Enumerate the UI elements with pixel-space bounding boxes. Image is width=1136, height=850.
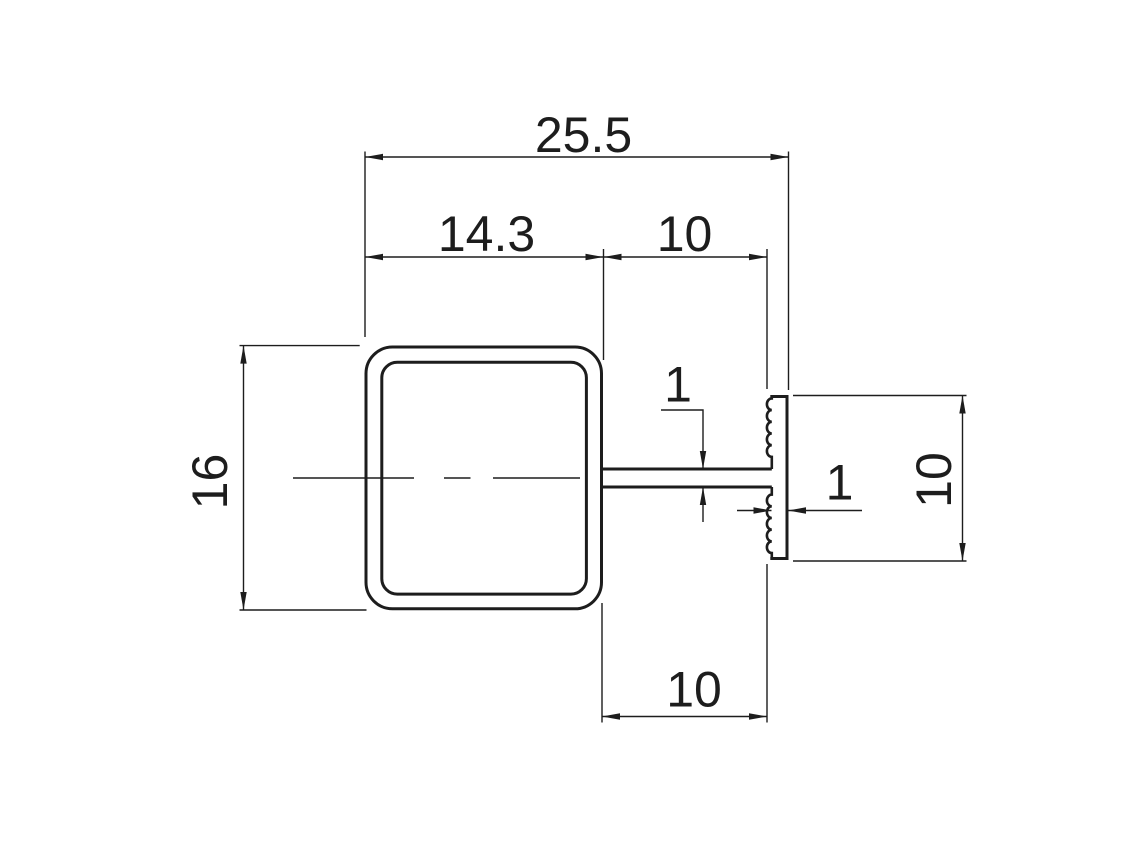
extension line: tube top (16) (240, 345, 360, 347)
arrowhead 16 top (240, 346, 246, 364)
dimension line 1 (flange thickness), right part (788, 510, 862, 512)
arrowhead flange 1 pointing right (754, 507, 772, 513)
arrowhead 14.3 left (365, 254, 383, 260)
arrowhead 10 right (749, 254, 767, 260)
svg-text:10: 10 (657, 206, 713, 262)
horizontal centerline, long dash left (293, 477, 414, 479)
profile outer contour (rounded square tube) (366, 347, 602, 609)
extension line: serrated edge, above flange (10) (766, 249, 768, 389)
dimension line 10 (bottom) (602, 716, 767, 718)
svg-text:25.5: 25.5 (535, 107, 632, 163)
arrowhead 10 bottom right (749, 713, 767, 719)
arrowhead 10 bottom left (602, 713, 620, 719)
extension line: flange top (10 right) (793, 395, 967, 397)
web bottom line (600, 486, 772, 489)
arrowhead web 1 down (700, 451, 706, 469)
arrowhead 10 left (604, 254, 622, 260)
extension line: serrated edge below flange (10 bottom) (766, 564, 768, 723)
flange outline: top, right, bottom edges (770, 397, 787, 559)
extension line: flange bottom (10 right) (793, 560, 967, 562)
horizontal centerline, short dash (444, 477, 471, 479)
dimension line 14.3 / 10 (365, 256, 767, 258)
horizontal centerline, long dash right (493, 477, 580, 479)
arrowhead 25.5 right (771, 154, 789, 160)
extension line: tube bottom (16) (240, 609, 367, 611)
extension line: flange right edge (25.5) (788, 152, 790, 391)
dimension line 10 (vertical right) (962, 396, 964, 562)
svg-text:16: 16 (182, 454, 238, 510)
arrowhead 25.5 left (365, 154, 383, 160)
arrowhead 10 right bottom (959, 543, 965, 561)
svg-text:1: 1 (664, 357, 692, 413)
svg-text:10: 10 (666, 662, 722, 718)
leader tail below web (702, 487, 704, 522)
svg-text:1: 1 (826, 455, 854, 511)
dimension line 16 (vertical left) (243, 346, 245, 610)
arrowhead flange 1 pointing left (788, 507, 806, 513)
leader line: web thickness 1 (661, 410, 703, 469)
extension line: web start below tube (10 bottom) (601, 603, 603, 723)
flange serrated left edge, upper section (767, 397, 772, 470)
dimension line 25.5 (365, 156, 789, 158)
svg-text:14.3: 14.3 (438, 206, 535, 262)
arrowhead web 1 up (700, 487, 706, 505)
flange serrated left edge, lower section (767, 487, 772, 559)
extension line: tube left side (25.5 / 14.3) (364, 152, 366, 338)
arrowhead 16 bottom (240, 592, 246, 610)
arrowhead 14.3 right (586, 254, 604, 260)
svg-text:10: 10 (906, 452, 962, 508)
dimension line 1 (flange thickness), left part (737, 510, 772, 512)
web top line (600, 468, 772, 471)
arrowhead 10 right top (959, 396, 965, 414)
profile inner contour (tube bore) (382, 362, 587, 594)
extension line: tube right side (14.3 / 10) (603, 249, 605, 360)
